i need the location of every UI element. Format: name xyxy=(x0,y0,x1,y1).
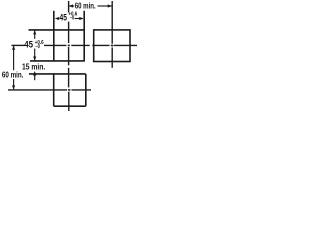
cutout square A bottom edge + left extension xyxy=(30,60,85,62)
svg-text:45: 45 xyxy=(60,13,67,23)
horizontal center line of C xyxy=(8,89,67,91)
unit outline C (bottom) top edge + left extension xyxy=(29,73,86,75)
unit outline C bottom edge xyxy=(54,105,86,107)
svg-text:−0: −0 xyxy=(35,44,40,50)
horizontal center line of A, left stub xyxy=(12,44,25,46)
center dash of C crosshair xyxy=(68,89,70,91)
horizontal center line of B xyxy=(92,44,109,46)
dimension 45 +0.6/-0 (left, vertical) xyxy=(33,30,36,61)
cutout square A (top-left) left edge + upward extension xyxy=(53,11,55,61)
dimension 60 min. (left, vertical) xyxy=(12,46,15,90)
center dash of A crosshair xyxy=(68,45,70,46)
unit outline C left edge xyxy=(53,74,55,106)
svg-text:45: 45 xyxy=(24,40,33,50)
svg-text:−0: −0 xyxy=(70,15,75,21)
cutout square A right edge + upward extension xyxy=(83,11,85,61)
unit outline C right edge xyxy=(85,74,87,106)
vertical center line of B (extension of 60 min. top dim) xyxy=(111,1,113,44)
dimension 15 min. lower arrow leader xyxy=(33,71,36,80)
svg-text:60 min.: 60 min. xyxy=(75,1,96,11)
dimension 60 min. (top, horizontal) xyxy=(69,4,112,7)
horizontal center line of A xyxy=(44,44,66,46)
dimension 45 +0.6/-0 (top, horizontal) xyxy=(55,17,84,20)
svg-text:15 min.: 15 min. xyxy=(22,62,45,72)
cutout square A top edge + left extension xyxy=(29,29,85,31)
svg-text:60 min.: 60 min. xyxy=(2,70,24,80)
vertical center line through A and C (extension of 60 min. top dim) xyxy=(68,1,70,12)
center dash of B crosshair xyxy=(111,45,113,47)
unit outline B (top-right) xyxy=(94,30,130,62)
